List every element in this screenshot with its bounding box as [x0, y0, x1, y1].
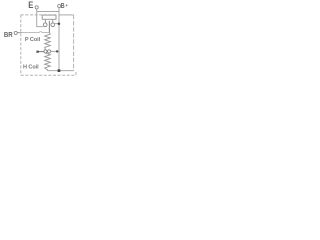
square junction dot at bottom: [58, 69, 61, 72]
wire from B tee to top right corner: [59, 14, 74, 16]
junction dot at B line and contact branch: [58, 23, 61, 26]
terminal E circle: [35, 6, 38, 9]
stub box to right contact: [52, 19, 54, 23]
left contact point circle: [43, 23, 47, 27]
svg-text:B: B: [61, 3, 65, 10]
bottom wire from H coil to right corner: [47, 70, 73, 72]
bridge wire E line to B line: [37, 11, 59, 13]
svg-text:H Coil: H Coil: [23, 65, 39, 71]
wire from enclosure edge to contact arm with hop: [22, 32, 50, 33]
svg-text:P Coil: P Coil: [25, 37, 41, 43]
tap wire from coil junction to B line: [51, 50, 59, 52]
H coil winding zigzag: [45, 53, 51, 71]
dashed enclosure right edge: [73, 15, 75, 71]
svg-text:E: E: [28, 0, 33, 10]
svg-text:BR: BR: [4, 30, 13, 39]
wire right contact to B line junction: [55, 23, 59, 25]
dashed enclosure bottom edge: [21, 74, 76, 76]
terminal BR circle: [14, 31, 17, 34]
dashed enclosure top edge: [21, 14, 57, 16]
wire from E down and right to left contact: [37, 9, 44, 27]
dashed enclosure left edge: [20, 15, 22, 75]
wire from B down the middle: [58, 8, 60, 71]
junction dot on tap wire: [56, 50, 58, 52]
coil junction terminal circle right: [48, 50, 51, 53]
moving contact arm: [48, 21, 50, 33]
relay coil box (resistor): [42, 15, 56, 19]
right contact point circle: [51, 23, 55, 27]
lead stub into coil junction connector: [36, 51, 39, 53]
stub box to left contact: [44, 19, 46, 23]
P coil winding zigzag: [45, 33, 51, 50]
dashed corner tick bottom right: [75, 72, 77, 75]
svg-text:+: +: [65, 3, 68, 8]
terminal B circle: [58, 4, 61, 7]
wire from BR to enclosure edge: [17, 32, 21, 34]
coil junction terminal circle left: [44, 50, 47, 53]
